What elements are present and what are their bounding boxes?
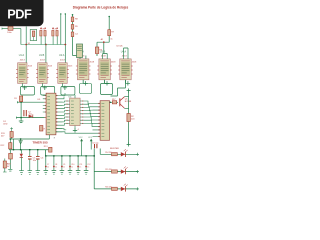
svg-text:1n: 1n bbox=[55, 167, 57, 169]
svg-text:D2 rojo: D2 rojo bbox=[92, 141, 98, 144]
svg-text:U1:B: U1:B bbox=[39, 54, 45, 57]
svg-text:R17: R17 bbox=[112, 99, 115, 101]
svg-text:U1:A: U1:A bbox=[19, 54, 25, 57]
svg-text:X2 32k: X2 32k bbox=[116, 46, 123, 48]
svg-text:BUZZER: BUZZER bbox=[110, 148, 119, 150]
svg-text:U2:A: U2:A bbox=[59, 54, 65, 57]
svg-text:1n: 1n bbox=[87, 167, 89, 169]
svg-text:1n: 1n bbox=[47, 167, 49, 169]
svg-text:VCC: VCC bbox=[79, 137, 84, 139]
svg-text:Diagrama Parte de Logica de Re: Diagrama Parte de Logica de Relojes bbox=[73, 4, 128, 9]
svg-text:LED: LED bbox=[3, 123, 8, 125]
svg-text:R15 220: R15 220 bbox=[105, 169, 111, 171]
svg-text:4518: 4518 bbox=[101, 56, 107, 58]
svg-text:PDF: PDF bbox=[7, 7, 32, 22]
svg-text:1n: 1n bbox=[79, 167, 81, 169]
svg-text:VCC: VCC bbox=[88, 137, 93, 139]
svg-text:R3 R4: R3 R4 bbox=[40, 28, 45, 30]
svg-text:TIMER 555: TIMER 555 bbox=[33, 141, 49, 145]
svg-text:R14 220: R14 220 bbox=[105, 152, 111, 154]
svg-text:1n: 1n bbox=[63, 167, 65, 169]
svg-text:4013: 4013 bbox=[60, 59, 66, 61]
svg-text:1n: 1n bbox=[71, 167, 73, 169]
svg-text:4013: 4013 bbox=[40, 59, 46, 61]
svg-text:R16 220: R16 220 bbox=[105, 186, 111, 188]
svg-text:R5 R6: R5 R6 bbox=[52, 28, 57, 30]
svg-text:4013: 4013 bbox=[20, 59, 26, 61]
svg-text:4: 4 bbox=[78, 129, 79, 131]
svg-text:100n: 100n bbox=[7, 32, 11, 34]
svg-text:4518: 4518 bbox=[122, 56, 128, 58]
